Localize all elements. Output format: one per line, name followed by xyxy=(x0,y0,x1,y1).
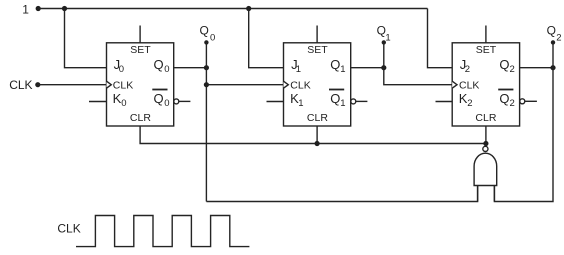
bubble: U3 Qbar output xyxy=(520,99,525,104)
wire: Q0 vertical xyxy=(205,42,207,201)
wire: 1-bus drop to J0 xyxy=(65,9,107,68)
svg-text:1: 1 xyxy=(340,64,345,75)
svg-text:CLR: CLR xyxy=(475,112,496,124)
svg-text:Q: Q xyxy=(154,57,164,72)
net 1 label xyxy=(22,2,29,16)
svg-text:0: 0 xyxy=(164,64,169,75)
svg-text:1: 1 xyxy=(22,2,29,16)
wire: U1 SET stub xyxy=(139,26,141,43)
svg-text:CLK: CLK xyxy=(9,78,32,92)
wire: Q2 vertical to NAND input B xyxy=(494,42,553,201)
svg-text:Q: Q xyxy=(200,23,209,37)
wire: K2 stub xyxy=(436,101,453,103)
svg-text:Q: Q xyxy=(499,91,509,106)
svg-text:2: 2 xyxy=(510,64,515,75)
svg-text:Q: Q xyxy=(154,91,164,106)
svg-text:0: 0 xyxy=(164,98,169,109)
svg-text:2: 2 xyxy=(510,98,515,109)
label Q2 xyxy=(547,23,562,43)
junction: CLR bus at U3 / NAND output xyxy=(483,141,488,146)
wire: Q0 to U2 clock xyxy=(206,84,283,86)
svg-text:2: 2 xyxy=(467,98,472,109)
svg-text:K: K xyxy=(113,91,122,106)
wire: Q2 output xyxy=(520,67,553,69)
node: CLK terminal dot xyxy=(35,82,40,87)
svg-text:CLK: CLK xyxy=(113,79,133,91)
svg-text:SET: SET xyxy=(130,44,151,56)
flip-flop U2 xyxy=(284,43,351,126)
svg-text:0: 0 xyxy=(121,98,126,109)
wire: 1-bus drop to J2 xyxy=(428,9,453,68)
wire: Q0 output xyxy=(174,67,207,69)
wire: 1-bus drop to J1 xyxy=(249,9,284,68)
junction: Q0 to U2 clock xyxy=(204,82,209,87)
flip-flop U1 xyxy=(107,43,174,126)
wire: Q1 vertical to U3 clock xyxy=(384,42,452,84)
node: Q0 label dot xyxy=(204,40,208,44)
wire: K0 stub xyxy=(89,101,107,103)
node: Q1 label dot xyxy=(382,40,386,44)
junction on 1-bus at J1 drop xyxy=(246,6,251,11)
wire: Qbar2 stub xyxy=(525,100,537,102)
node: logic-1 terminal dot xyxy=(36,6,41,11)
wire: U3 CLR stub xyxy=(485,126,487,144)
CLK input label xyxy=(9,78,32,92)
NAND gate U4 xyxy=(474,144,497,202)
bubble: U2 Qbar output xyxy=(351,99,356,104)
wire: U3 SET stub xyxy=(485,26,487,43)
svg-text:1: 1 xyxy=(340,98,345,109)
svg-text:CLK: CLK xyxy=(459,79,479,91)
svg-text:Q: Q xyxy=(330,57,340,72)
svg-text:2: 2 xyxy=(465,64,470,75)
junction: Q0 output on vertical xyxy=(204,65,209,70)
svg-text:1: 1 xyxy=(296,64,301,75)
wire: Q0 to NAND input A xyxy=(206,186,477,202)
clock waveform label xyxy=(57,222,80,236)
wire: CLR bus xyxy=(140,126,486,144)
junction: Q1 output on vertical xyxy=(381,65,386,70)
svg-text:Q: Q xyxy=(330,91,340,106)
svg-text:Q: Q xyxy=(547,23,556,37)
node: Q2 label dot xyxy=(551,40,555,44)
label Q0 xyxy=(200,23,216,43)
svg-text:Q: Q xyxy=(499,57,509,72)
svg-text:1: 1 xyxy=(385,32,390,43)
svg-text:0: 0 xyxy=(119,64,124,75)
svg-text:CLR: CLR xyxy=(307,112,328,124)
wire: K1 stub xyxy=(267,101,284,103)
svg-text:SET: SET xyxy=(307,44,328,56)
junction on 1-bus at J0 drop xyxy=(62,6,67,11)
label Q1 xyxy=(377,23,391,43)
wire: U2 SET stub xyxy=(316,26,318,43)
clock waveform xyxy=(76,216,249,247)
svg-text:CLK: CLK xyxy=(290,79,310,91)
svg-text:CLR: CLR xyxy=(130,112,151,124)
svg-text:2: 2 xyxy=(556,32,561,43)
wire: U2 CLR stub xyxy=(316,126,318,144)
wire: Q1 output xyxy=(351,67,384,69)
svg-text:CLK: CLK xyxy=(57,222,80,236)
flip-flop U3 xyxy=(452,43,519,126)
svg-text:1: 1 xyxy=(298,98,303,109)
wire: Qbar1 stub xyxy=(356,100,368,102)
bubble: U1 Qbar output xyxy=(174,99,179,104)
wire: Qbar0 stub xyxy=(179,100,191,102)
junction: CLR bus at U2 xyxy=(315,141,320,146)
svg-text:0: 0 xyxy=(210,32,215,43)
wire: CLK to U1 clock xyxy=(38,84,107,86)
svg-text:SET: SET xyxy=(476,44,497,56)
junction: Q2 output on vertical xyxy=(550,65,555,70)
wire: logic-1 bus xyxy=(38,8,427,10)
